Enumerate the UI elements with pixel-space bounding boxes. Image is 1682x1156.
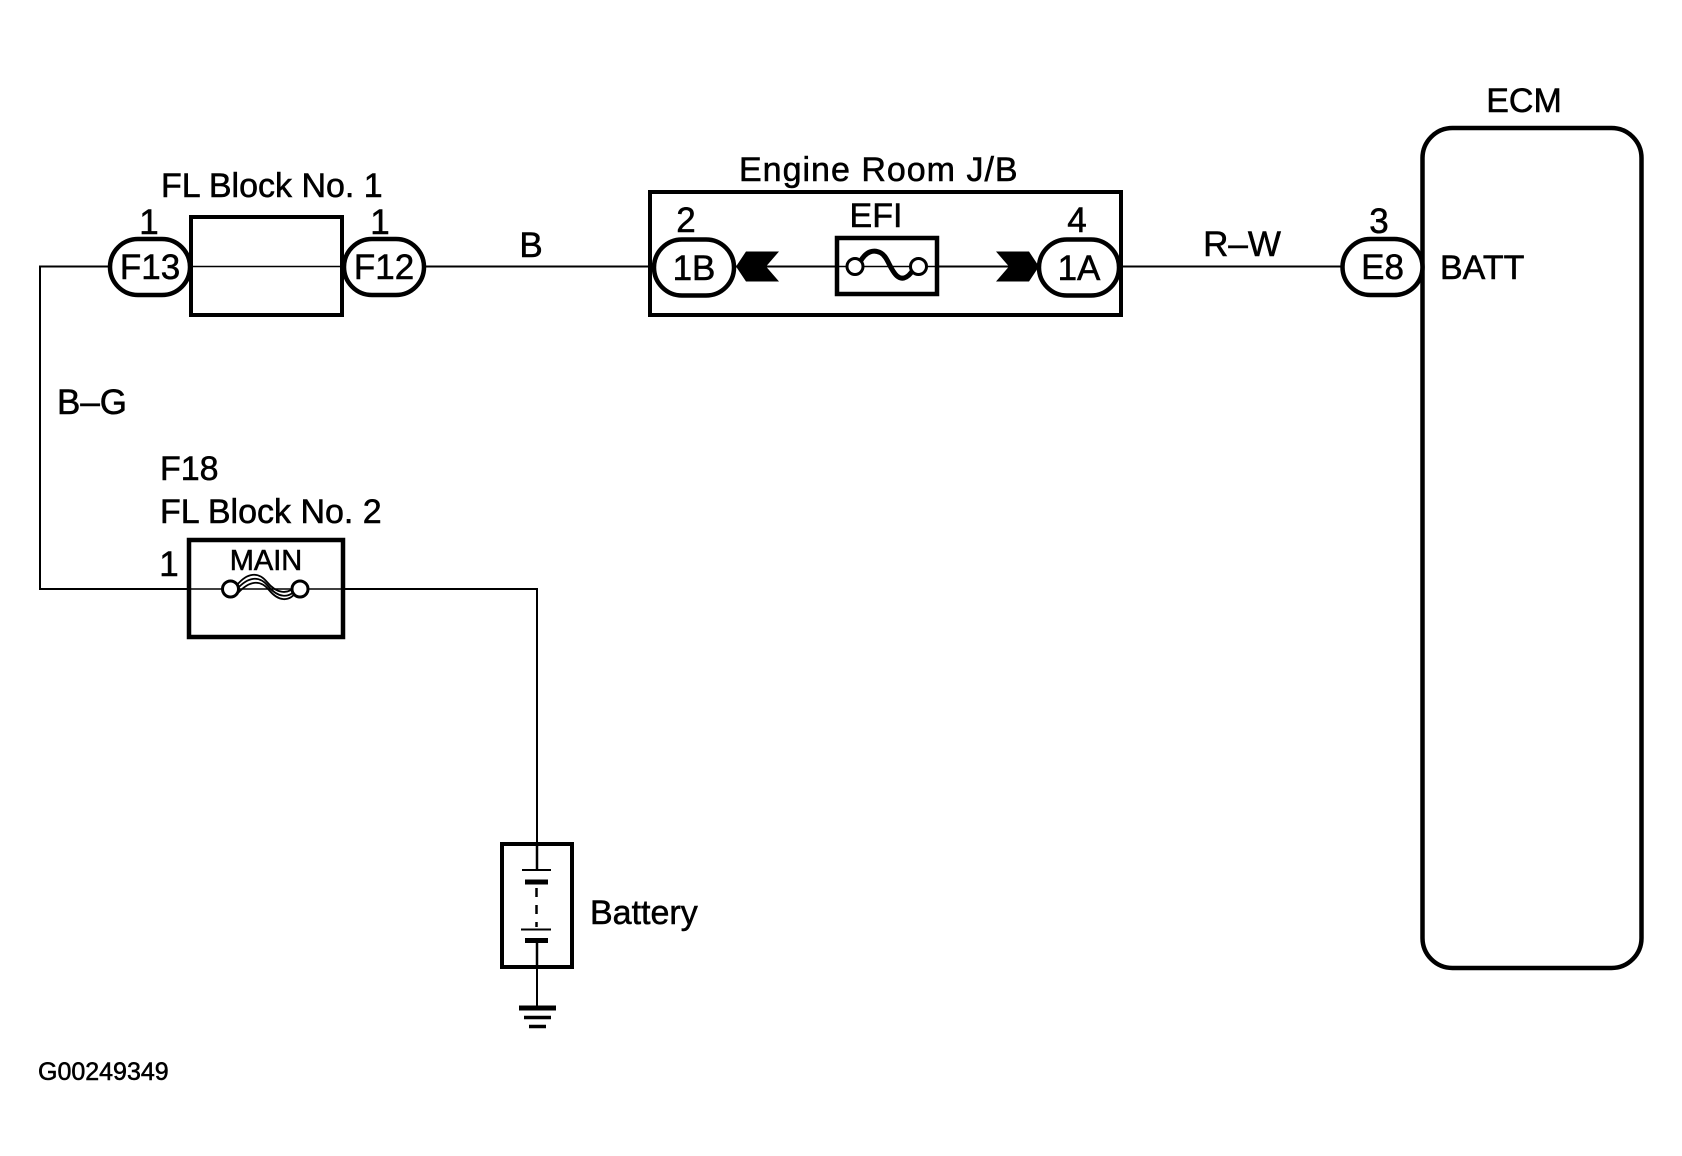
svg-text:Battery: Battery	[590, 894, 698, 932]
svg-text:F18: F18	[160, 450, 219, 488]
pin 2 of 1B	[676, 201, 695, 240]
pin 4 of 1A	[1067, 201, 1086, 240]
pin 1 of F13	[139, 203, 158, 242]
connector F12	[344, 239, 424, 295]
connector 1B	[654, 240, 734, 296]
label F18	[160, 450, 219, 488]
label R-W (wire color)	[1203, 225, 1281, 264]
svg-text:1: 1	[139, 203, 158, 242]
svg-text:BATT: BATT	[1440, 249, 1524, 287]
fusible link MAIN (FL Block No. 2)	[189, 540, 343, 637]
label EFI	[850, 197, 903, 235]
wire: inside J/B from EFI fuse to 1A	[934, 266, 1042, 268]
svg-text:1A: 1A	[1058, 249, 1101, 288]
pin 1 of F12	[370, 203, 389, 242]
label B-G	[57, 383, 127, 422]
label G00249349 (figure id)	[38, 1058, 169, 1086]
svg-text:3: 3	[1369, 202, 1388, 241]
wire: R-W net from J/B 1A to ECM E8	[1120, 266, 1346, 268]
wire: battery negative to ground	[536, 965, 538, 1007]
label FL Block No. 1	[161, 167, 383, 205]
arrow pointing right (toward 1A)	[996, 252, 1039, 282]
arrow pointing left (toward 1B)	[736, 252, 779, 282]
connector F13	[110, 239, 190, 295]
pin 3 of E8	[1369, 202, 1388, 241]
svg-text:F13: F13	[120, 248, 180, 287]
wire: from MAIN fusible link right, over and down to battery	[341, 589, 537, 846]
svg-text:4: 4	[1067, 201, 1086, 240]
ECM body	[1423, 128, 1642, 968]
block FL Block No. 1 body	[191, 217, 342, 315]
wire: B-G net from F13 left, down and to MAIN fusible link	[40, 267, 192, 590]
connector E8	[1343, 239, 1423, 295]
label Battery	[590, 894, 698, 932]
svg-text:FL Block No. 2: FL Block No. 2	[160, 493, 382, 531]
svg-text:F12: F12	[354, 248, 414, 287]
svg-text:B–G: B–G	[57, 383, 127, 422]
svg-text:G00249349: G00249349	[38, 1058, 169, 1086]
wire: B net from F12 to Engine Room J/B 1B	[423, 266, 660, 268]
svg-text:R–W: R–W	[1203, 225, 1281, 264]
label ECM	[1486, 82, 1562, 120]
junction block Engine Room J/B box	[650, 192, 1121, 315]
svg-text:EFI: EFI	[850, 197, 903, 235]
connector 1A	[1039, 240, 1119, 296]
svg-text:1B: 1B	[673, 249, 716, 288]
wire: inside J/B from 1B to EFI fuse	[732, 266, 840, 268]
fuse EFI	[837, 238, 937, 294]
svg-text:1: 1	[159, 545, 178, 584]
svg-text:MAIN: MAIN	[230, 545, 303, 577]
pin 1 of MAIN fusible link	[159, 545, 178, 584]
label B (wire color)	[519, 226, 542, 265]
svg-text:ECM: ECM	[1486, 82, 1562, 120]
svg-text:FL Block No. 1: FL Block No. 1	[161, 167, 383, 205]
label BATT (ECM terminal name)	[1440, 249, 1524, 287]
svg-text:B: B	[519, 226, 542, 265]
label FL Block No. 2	[160, 493, 382, 531]
svg-text:1: 1	[370, 203, 389, 242]
svg-text:2: 2	[676, 201, 695, 240]
svg-text:Engine Room J/B: Engine Room J/B	[739, 151, 1019, 189]
label Engine Room J/B	[739, 151, 1019, 189]
ground	[519, 1008, 556, 1027]
svg-text:E8: E8	[1361, 248, 1404, 287]
battery	[502, 844, 572, 967]
